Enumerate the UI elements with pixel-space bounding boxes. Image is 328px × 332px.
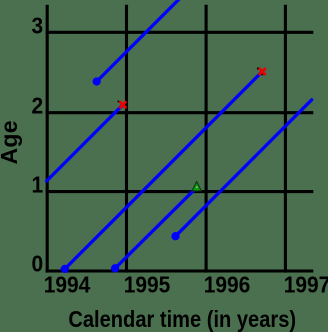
- grid vertical line 1996: [205, 5, 208, 273]
- lifeline 2 from axis to red x: [47, 105, 123, 181]
- lifeline 3 long from bottom dot to red x: [65, 72, 262, 269]
- svg-text:0: 0: [32, 250, 44, 276]
- birth dot D1: [93, 77, 101, 85]
- svg-text:1995: 1995: [124, 272, 171, 298]
- triangle inner speck: [196, 186, 198, 188]
- black speck near red x 2 upper: [257, 68, 259, 70]
- svg-text:1: 1: [32, 172, 44, 198]
- death marker red x 1: [119, 101, 126, 108]
- black speck near red x 2 lower: [261, 74, 263, 76]
- birth dot D4: [171, 232, 179, 240]
- grid horizontal line age 1: [46, 190, 314, 193]
- grid horizontal line age 0 (x-axis): [46, 269, 314, 272]
- svg-text:1996: 1996: [204, 272, 251, 298]
- lifeline 5 from mid dot to grid right edge: [176, 100, 312, 236]
- lifeline 4 from bottom dot to triangle: [115, 188, 196, 268]
- grid horizontal line age 2: [46, 111, 314, 114]
- grid vertical line 1995: [125, 5, 128, 273]
- birth dot D2: [61, 265, 69, 273]
- svg-text:1997: 1997: [284, 272, 328, 298]
- death marker red x 2: [259, 68, 266, 75]
- black speck near red x 1: [118, 101, 120, 103]
- svg-text:2: 2: [32, 92, 44, 118]
- censoring triangle marker: [192, 182, 201, 191]
- lifeline 1 from dot exiting top: [97, 0, 181, 82]
- svg-text:Age: Age: [0, 121, 22, 165]
- svg-text:Calendar time (in years): Calendar time (in years): [68, 306, 296, 332]
- grid vertical line 1997: [284, 5, 287, 273]
- grid vertical line 1994 (y-axis): [46, 5, 49, 273]
- svg-text:1994: 1994: [44, 272, 91, 298]
- birth dot D3: [111, 264, 119, 272]
- svg-text:3: 3: [32, 13, 44, 39]
- grid horizontal line age 3: [46, 31, 314, 34]
